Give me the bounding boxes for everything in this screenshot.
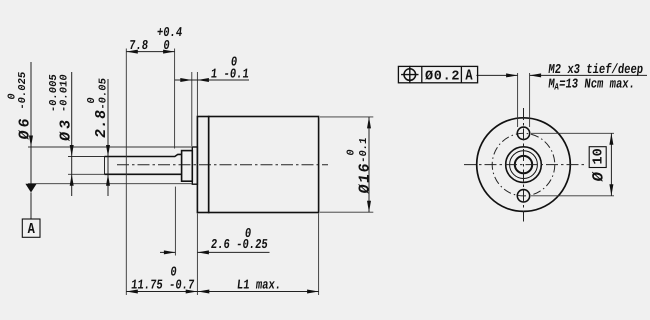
extension lines Ø6 bbox=[28, 147, 192, 184]
extension line motor rear bottom bbox=[318, 214, 320, 296]
svg-text:-0.005: -0.005 bbox=[48, 74, 60, 113]
svg-text:10: 10 bbox=[592, 148, 607, 164]
extension line 7.8 right bbox=[174, 49, 176, 149]
extension line motor face bottom bbox=[196, 214, 198, 296]
dimension 1 bbox=[175, 79, 250, 81]
outer circle Ø16 bbox=[477, 118, 571, 212]
svg-text:Ø3: Ø3 bbox=[56, 116, 74, 143]
Ø10 dimension line bbox=[610, 133, 612, 196]
svg-text:0: 0 bbox=[86, 97, 98, 105]
dimension 11.75 / L1 bbox=[126, 291, 318, 293]
shaft (Ø3 with flat) bbox=[105, 154, 182, 156]
extension lines Ø3 bbox=[68, 157, 105, 175]
svg-text:L1 max.: L1 max. bbox=[236, 277, 282, 293]
bolt circle Ø10 bbox=[492, 133, 555, 196]
dimension Ø16 line bbox=[368, 117, 370, 212]
datum box A bbox=[22, 219, 40, 237]
M2 hole top bbox=[517, 127, 529, 139]
svg-text:2.8: 2.8 bbox=[92, 108, 110, 139]
svg-text:11.75 -0.7: 11.75 -0.7 bbox=[130, 277, 195, 293]
svg-text:7.8: 7.8 bbox=[128, 38, 149, 54]
Ø10 extension lines bbox=[531, 133, 614, 196]
svg-text:Ø16: Ø16 bbox=[355, 161, 373, 195]
leader from feature frame + M2 dim line bbox=[476, 74, 647, 76]
svg-text:-0.05: -0.05 bbox=[98, 77, 110, 110]
washer ring bbox=[506, 147, 542, 183]
centerline (axis) bbox=[117, 164, 328, 166]
shaft circle bbox=[515, 156, 532, 173]
position symbol bbox=[404, 69, 416, 81]
datum triangle bbox=[25, 184, 36, 193]
motor flange bbox=[197, 117, 208, 213]
svg-text:-0.025: -0.025 bbox=[17, 71, 29, 110]
dimension Ø6 line bbox=[30, 62, 32, 184]
dimension 7.8 bbox=[126, 51, 174, 53]
svg-text:Ø6: Ø6 bbox=[16, 114, 34, 141]
collar ring bbox=[510, 151, 538, 179]
M2 hole extension lines bbox=[518, 73, 530, 127]
svg-text:M2 x3 tief/deep: M2 x3 tief/deep bbox=[548, 62, 644, 78]
extension lines dim 1 bbox=[192, 72, 198, 146]
extension line 7.8/11.75 left bbox=[125, 49, 127, 296]
svg-text:A: A bbox=[28, 222, 36, 239]
front view centerlines bbox=[464, 164, 586, 166]
svg-text:Ø0.2: Ø0.2 bbox=[425, 69, 460, 84]
dimension 2.6 bbox=[160, 251, 270, 253]
extension lines Ø16 bbox=[320, 117, 373, 212]
dimension 2.8 line bbox=[107, 79, 109, 196]
position tolerance frame bbox=[398, 66, 477, 82]
svg-text:-0.010: -0.010 bbox=[59, 74, 71, 113]
motor body Ø16 bbox=[209, 117, 319, 213]
svg-text:MA=13 Ncm max.: MA=13 Ncm max. bbox=[547, 76, 635, 92]
Ø10 boxed basic dimension bbox=[589, 147, 606, 168]
svg-text:2.6 -0.25: 2.6 -0.25 bbox=[210, 237, 269, 253]
extension line 2.6 left bbox=[174, 187, 176, 256]
svg-text:-0.1: -0.1 bbox=[358, 137, 370, 164]
dimension Ø3 line bbox=[71, 72, 73, 196]
collar bbox=[182, 151, 193, 182]
svg-text:Ø: Ø bbox=[590, 171, 608, 183]
M2 hole bottom bbox=[517, 190, 529, 202]
washer Ø6 bbox=[192, 147, 197, 184]
svg-text:A: A bbox=[465, 68, 473, 85]
svg-text:0: 0 bbox=[346, 149, 358, 157]
datum leader bbox=[30, 193, 32, 220]
